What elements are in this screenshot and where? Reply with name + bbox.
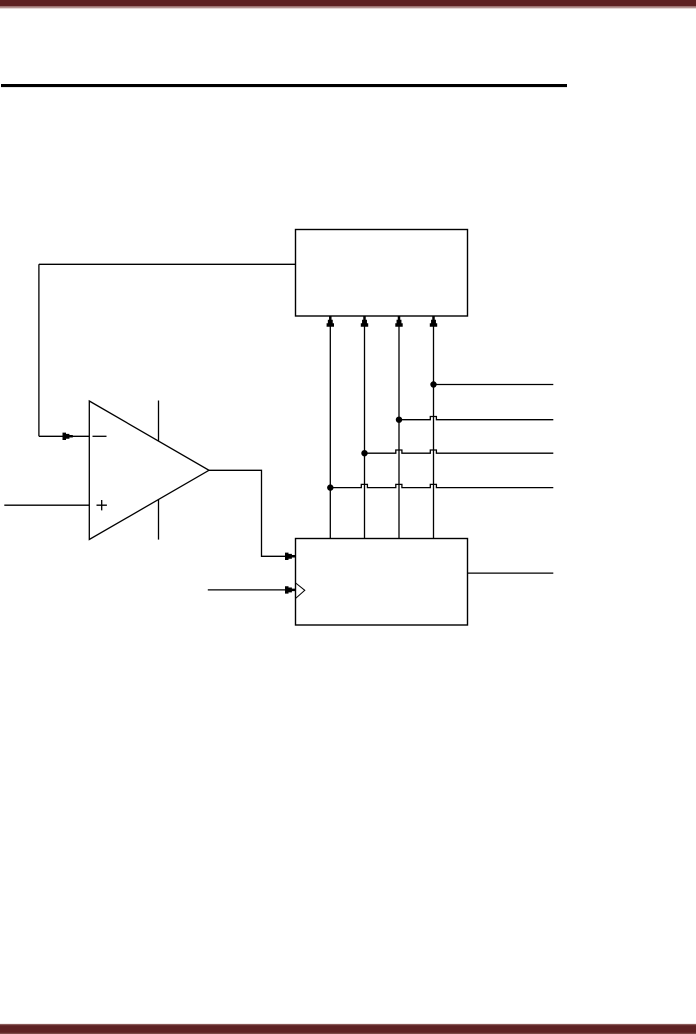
junction dot on Q2/h2: [396, 417, 402, 423]
bus wire Q1 vertical: [364, 317, 366, 539]
op-amp U1 triangle: [89, 401, 209, 540]
title rule: [1, 84, 567, 87]
junction dot on Q1/h3: [361, 450, 367, 456]
bus wire Q3 vertical: [433, 317, 435, 539]
DAC block U2 (top box): [296, 230, 468, 317]
arrow: Q2 into DAC: [395, 316, 402, 326]
junction dot on Q0/h4: [327, 484, 333, 490]
arrow: Q1 into DAC: [361, 316, 368, 326]
wire: op-amp output to register (right, down, right): [209, 470, 296, 556]
wire: register output right: [468, 572, 554, 574]
wire: tap h4 from Q0 with hops over Q1 Q2 Q3: [330, 484, 553, 487]
op-amp top power pin: [158, 401, 160, 442]
arrow: Q0 into DAC: [327, 316, 334, 326]
arrow: clock into register: [285, 586, 295, 593]
wire: into inverting input: [39, 435, 89, 437]
bus wire Q0 vertical: [329, 317, 331, 539]
header bar (maroon): [0, 0, 696, 6]
wire: feedback horizontal from top box left pin: [39, 263, 296, 265]
op-amp minus label: [93, 435, 107, 437]
arrow: op-amp output into register: [285, 553, 295, 560]
footer bar (maroon): [0, 1025, 696, 1034]
clock chevron on register: [296, 583, 305, 599]
op-amp bottom power pin: [158, 499, 160, 539]
junction dot on Q3/h1: [430, 381, 436, 387]
wire: non-inverting input from page left: [4, 504, 89, 506]
op-amp plus label: [97, 500, 107, 510]
arrow: Q3 into DAC: [430, 316, 437, 326]
wire: tap h2 from Q2 with hop over Q3: [399, 417, 553, 420]
wire: tap h3 from Q1 with hops over Q2 and Q3: [365, 450, 554, 453]
wire: tap h1 from Q3: [434, 384, 554, 386]
wire: clock input: [208, 589, 296, 591]
register block U3 (bottom box): [296, 539, 468, 626]
bus wire Q2 vertical: [398, 317, 400, 539]
wire: feedback vertical drop: [38, 264, 40, 436]
arrow into inverting input: [63, 433, 73, 440]
